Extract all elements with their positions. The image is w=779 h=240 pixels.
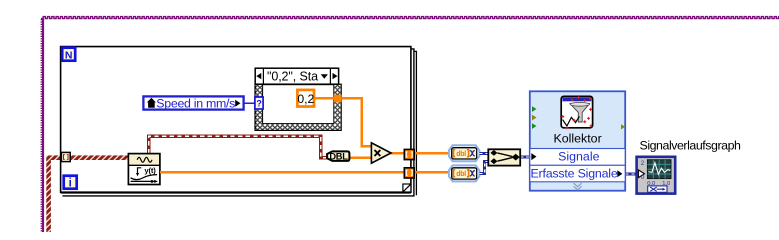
for loop frame (stacked): [61, 47, 417, 196]
case structure border (checkered): [255, 84, 341, 130]
dynamic data wire merge to Kollektor: [520, 155, 531, 158]
merge signals function: [488, 149, 520, 165]
svg-text:Erfasste Signale: Erfasste Signale: [530, 166, 617, 180]
for loop resize dog-ear corner: [403, 184, 411, 192]
svg-text:y(t): y(t): [144, 166, 156, 175]
svg-text:?: ?: [256, 99, 262, 109]
Kollektor express VI: [530, 91, 625, 190]
case output tunnel (orange): [334, 95, 342, 103]
convert to dynamic data 1: [449, 145, 480, 161]
wire: Speed control to case selector: [245, 102, 256, 104]
indexing tunnel on loop border (error wire): [61, 152, 70, 161]
dynamic data wire convert1 to merge: [479, 152, 489, 155]
dynamic data wire convert2 to merge: [479, 161, 489, 173]
svg-text:Signalverlaufsgraph: Signalverlaufsgraph: [640, 139, 742, 153]
svg-text:2: 2: [641, 160, 645, 167]
error wire from waveform VI top to DBL conversion: [149, 136, 328, 158]
multiply function: [371, 143, 391, 163]
error wire segment from tunnel to waveform VI: [70, 155, 128, 160]
flat sequence structure top border: [41, 17, 779, 19]
convert to dynamic data 2: [449, 165, 480, 181]
svg-text:Kollektor: Kollektor: [553, 132, 601, 146]
error wire (array, candy-striped) from bottom edge to loop tunnel: [46, 155, 61, 232]
flat sequence structure left border: [41, 19, 44, 232]
svg-text:N: N: [65, 50, 73, 62]
indicator label Signalverlaufsgraph: [640, 139, 742, 153]
wire: waveform VI output to loop tunnel 2: [160, 171, 405, 173]
for loop count terminal N: [62, 48, 75, 62]
wire: loop tunnel 1 to convert 1: [415, 152, 450, 154]
dynamic data wire Kollektor to graph: [625, 172, 637, 175]
control terminal "Speed in mm/s": [143, 96, 243, 110]
loop output tunnel 1 (auto-indexed): [404, 149, 414, 159]
svg-text:i: i: [69, 178, 72, 190]
case selector label: [255, 68, 338, 84]
svg-text:0: 0: [641, 174, 645, 181]
wire: multiply output to loop tunnel 1: [391, 152, 406, 154]
svg-text:"0,2", Sta: "0,2", Sta: [267, 69, 318, 83]
numeric constant 0,2: [297, 90, 314, 107]
svg-text:dbl: dbl: [456, 151, 466, 158]
svg-text:Signale: Signale: [558, 150, 599, 164]
wire: loop tunnel 2 to convert 2: [415, 171, 450, 173]
svg-text:DBL: DBL: [329, 151, 348, 161]
loop output tunnel 2 (auto-indexed): [404, 168, 414, 178]
wire: case tunnel to multiply upper input: [341, 98, 371, 146]
for loop iteration terminal i: [64, 176, 77, 190]
DBL conversion tag: [327, 151, 349, 161]
wire: constant 0,2 to case tunnel: [314, 97, 334, 99]
svg-text:0,2: 0,2: [297, 92, 314, 106]
svg-text:dbl: dbl: [456, 171, 466, 178]
case selector tunnel ?: [255, 97, 263, 109]
wire: DBL to multiply lower input: [349, 157, 372, 159]
waveform express VI icon: [128, 154, 160, 185]
svg-text:Speed in mm/s: Speed in mm/s: [156, 96, 235, 110]
waveform graph terminal: [637, 157, 676, 194]
